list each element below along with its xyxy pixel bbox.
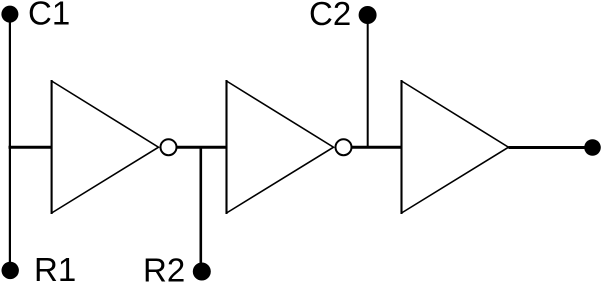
wire R2 vertical xyxy=(200,147,203,271)
wire U3 output xyxy=(509,146,593,149)
inverter U2 triangle xyxy=(225,80,227,214)
wire input to U1 xyxy=(9,146,53,149)
node R2 terminal dot xyxy=(193,263,211,281)
node C2 terminal dot xyxy=(359,6,377,24)
inverter U2 bubble xyxy=(336,139,352,155)
wire C2 vertical xyxy=(367,15,369,147)
node R1 terminal dot xyxy=(2,262,19,279)
node output terminal dot xyxy=(584,139,601,156)
buffer U3 triangle xyxy=(400,80,402,214)
svg-text:R2: R2 xyxy=(143,252,185,283)
inverter U1 triangle xyxy=(51,80,53,214)
wire C1-R1 vertical xyxy=(9,14,11,270)
wire U2 output to U3 input xyxy=(352,146,403,149)
node C1 terminal dot xyxy=(1,6,18,23)
svg-text:R1: R1 xyxy=(34,251,76,283)
wire U1 output to U2 input xyxy=(177,146,228,149)
svg-text:C2: C2 xyxy=(309,0,351,32)
inverter U1 bubble xyxy=(161,139,177,155)
svg-text:C1: C1 xyxy=(28,0,70,31)
